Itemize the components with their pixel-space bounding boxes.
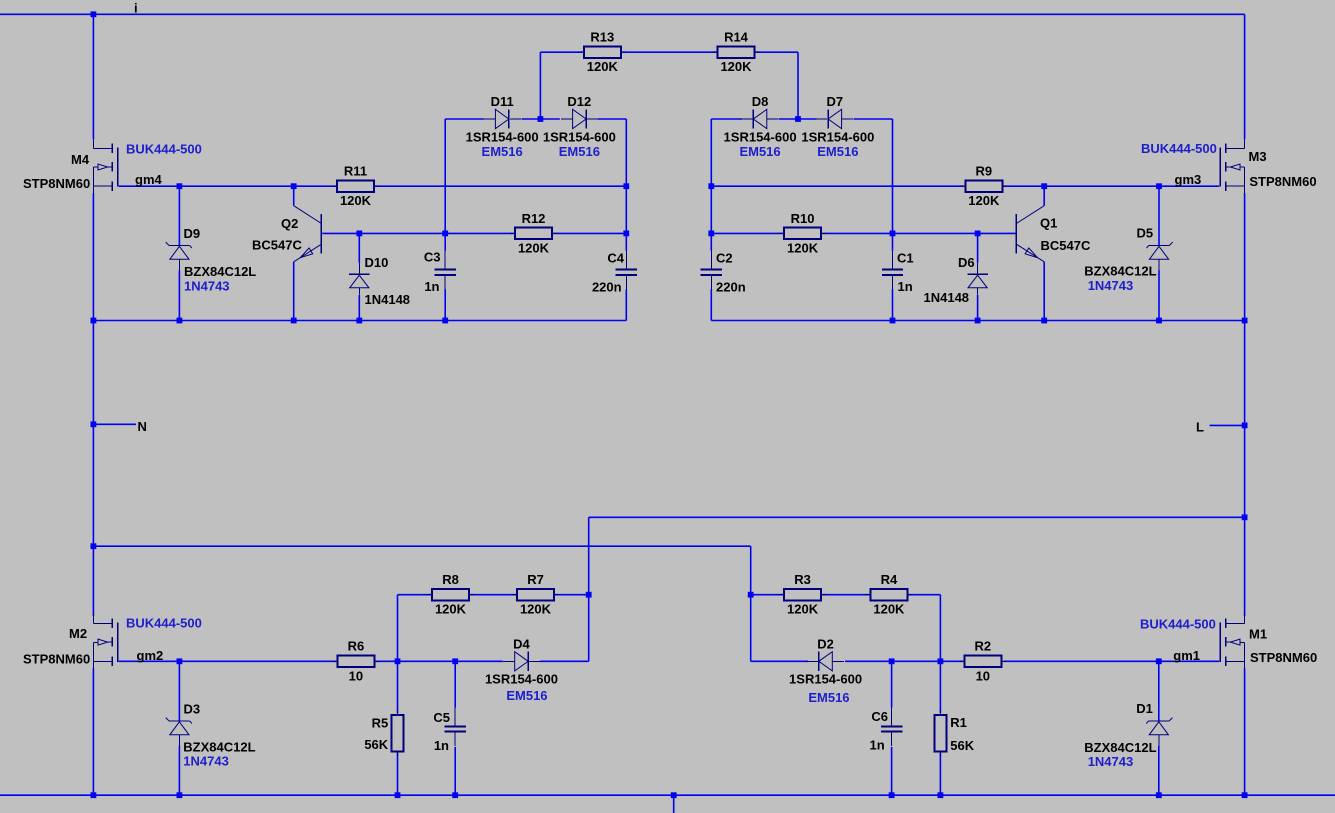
- wire R8-R7 rail: [398, 594, 432, 596]
- svg-text:1SR154-600: 1SR154-600: [466, 130, 539, 145]
- junction bottom rail / D3: [177, 792, 183, 798]
- wire base rail left: [322, 232, 514, 234]
- wire: [293, 262, 295, 321]
- resistor R14: [712, 46, 759, 58]
- resistor R12: [510, 228, 557, 240]
- svg-text:120K: 120K: [587, 59, 619, 74]
- MOSFET M2: [93, 614, 117, 668]
- svg-text:C2: C2: [716, 251, 733, 266]
- resistor R3: [779, 589, 826, 601]
- junction gm4 / D9: [177, 183, 183, 189]
- wire: [540, 660, 589, 662]
- junction bottom rail / C6: [889, 792, 895, 798]
- svg-text:D10: D10: [365, 255, 389, 270]
- svg-text:1n: 1n: [424, 279, 439, 294]
- svg-text:BUK444-500: BUK444-500: [126, 616, 202, 631]
- junction rail L / M3 source: [1242, 318, 1248, 324]
- wire: [892, 119, 894, 251]
- junction gm1 rail / D1: [1156, 658, 1162, 664]
- wire: [454, 661, 456, 707]
- junction base rail / D6: [975, 231, 981, 237]
- wire: [178, 270, 180, 320]
- wire gm4 rail: [119, 185, 336, 187]
- resistor R8: [427, 589, 474, 601]
- wire ground stub: [673, 795, 675, 813]
- resistor R11: [332, 180, 379, 192]
- wire: [625, 289, 627, 320]
- svg-text:56K: 56K: [364, 737, 388, 752]
- junction rail N / C3: [442, 318, 448, 324]
- svg-text:C5: C5: [433, 710, 450, 725]
- svg-text:L: L: [1196, 420, 1204, 435]
- wire: [854, 118, 893, 120]
- junction rail L / D5: [1156, 318, 1162, 324]
- svg-text:EM516: EM516: [739, 144, 780, 159]
- svg-text:R8: R8: [442, 572, 459, 587]
- wire: [178, 661, 180, 720]
- resistor R1: [934, 711, 946, 757]
- junction gm2 / D3: [177, 658, 183, 664]
- svg-text:gm1: gm1: [1173, 648, 1200, 663]
- junction bottom rail / C5: [452, 792, 458, 798]
- wire: [1003, 660, 1219, 662]
- wire: [92, 668, 94, 795]
- svg-text:D1: D1: [1136, 701, 1153, 716]
- wire: [397, 595, 399, 662]
- wire mid rail to L column: [589, 516, 1245, 518]
- junction rail L / D6: [975, 318, 981, 324]
- svg-text:56K: 56K: [950, 738, 974, 753]
- transistor Q2: [294, 206, 322, 262]
- svg-text:M2: M2: [69, 626, 87, 641]
- wire: [444, 289, 446, 320]
- svg-text:BC547C: BC547C: [252, 238, 302, 253]
- svg-text:1N4148: 1N4148: [924, 290, 970, 305]
- junction bottom rail / D1: [1156, 792, 1162, 798]
- svg-text:120K: 120K: [787, 602, 819, 617]
- svg-text:STP8NM60: STP8NM60: [1249, 174, 1316, 189]
- node N: [91, 421, 97, 427]
- wire gm2 rail: [119, 660, 337, 662]
- svg-text:EM516: EM516: [817, 144, 858, 159]
- svg-text:1n: 1n: [870, 738, 885, 753]
- wire: [891, 747, 893, 795]
- diode D11: [484, 109, 522, 128]
- wire R13-R14 rail: [540, 51, 582, 53]
- svg-text:BZX84C12L: BZX84C12L: [1084, 740, 1156, 755]
- junction rail L / C1: [890, 318, 896, 324]
- wire: [750, 546, 752, 661]
- svg-text:1SR154-600: 1SR154-600: [543, 130, 616, 145]
- svg-text:220n: 220n: [592, 280, 622, 295]
- junction N column / mid rail: [91, 543, 97, 549]
- svg-text:1N4743: 1N4743: [1088, 754, 1134, 769]
- wire: [553, 232, 626, 234]
- diode D7: [815, 109, 853, 128]
- wire: [710, 289, 712, 320]
- wire: [1158, 270, 1160, 320]
- wire: [939, 752, 941, 795]
- svg-text:R3: R3: [794, 572, 811, 587]
- svg-text:N: N: [138, 419, 147, 434]
- capacitor C1: [882, 251, 903, 290]
- svg-text:D12: D12: [567, 94, 591, 109]
- junction rail L / Q1 emitter: [1041, 318, 1047, 324]
- svg-text:10: 10: [976, 668, 990, 683]
- svg-text:D3: D3: [184, 702, 201, 717]
- wire: [293, 186, 295, 206]
- zener diode D5: [1147, 242, 1173, 270]
- junction R3 / riser: [748, 592, 754, 598]
- junction gm1 rail / C6: [889, 658, 895, 664]
- capacitor C6: [881, 708, 902, 747]
- junction D11-D12 / R13: [538, 116, 544, 122]
- wire: [588, 517, 590, 661]
- junction gm3 / Q1 collector: [1041, 183, 1047, 189]
- junction gm4 / Q2 collector: [291, 183, 297, 189]
- svg-text:BZX84C12L: BZX84C12L: [1084, 264, 1156, 279]
- wire: [1158, 746, 1160, 795]
- junction bottom rail / R5: [395, 792, 401, 798]
- junction D8-D7 / R14: [795, 116, 801, 122]
- svg-text:R1: R1: [950, 715, 967, 730]
- wire top rail (net i): [0, 13, 1245, 15]
- junction base rail / D10: [356, 231, 362, 237]
- svg-text:BC547C: BC547C: [1041, 238, 1091, 253]
- svg-text:BUK444-500: BUK444-500: [126, 141, 202, 156]
- svg-text:120K: 120K: [518, 240, 550, 255]
- resistor R7: [512, 589, 559, 601]
- diode D6: [967, 263, 988, 295]
- svg-text:1SR154-600: 1SR154-600: [789, 672, 862, 687]
- junction bottom rail / ground stub: [671, 792, 677, 798]
- junction top rail / M4 drain: [91, 11, 97, 17]
- junction rail N / Q2 emitter: [291, 318, 297, 324]
- svg-text:R4: R4: [881, 572, 898, 587]
- wire: [454, 747, 456, 795]
- wire D8-D7 rail: [711, 118, 742, 120]
- wire: [625, 119, 627, 251]
- wire: [539, 52, 541, 119]
- svg-text:EM516: EM516: [506, 688, 547, 703]
- junction gm2 / R5: [395, 658, 401, 664]
- junction gm1 rail / R1: [938, 658, 944, 664]
- svg-text:D11: D11: [491, 94, 514, 109]
- svg-text:220n: 220n: [716, 280, 746, 295]
- junction R7 / riser: [586, 592, 592, 598]
- zener diode D9: [166, 242, 192, 270]
- svg-text:BZX84C12L: BZX84C12L: [184, 264, 256, 279]
- zener diode D3: [166, 718, 192, 746]
- wire: [892, 289, 894, 320]
- wire: [1244, 668, 1246, 795]
- svg-text:BUK444-500: BUK444-500: [1140, 617, 1216, 632]
- wire: [358, 295, 360, 321]
- capacitor C5: [445, 708, 466, 747]
- junction rail N / D10: [356, 318, 362, 324]
- svg-text:BUK444-500: BUK444-500: [1141, 141, 1217, 156]
- svg-text:R10: R10: [791, 211, 815, 226]
- wire bottom rail left (net N side): [93, 320, 626, 322]
- wire: [522, 118, 560, 120]
- svg-text:1SR154-600: 1SR154-600: [485, 672, 558, 687]
- capacitor C4: [616, 251, 637, 290]
- wire mid rail to N column: [93, 545, 750, 547]
- svg-text:R7: R7: [527, 572, 544, 587]
- resistor R4: [865, 589, 912, 601]
- wire base rail right: [711, 232, 783, 234]
- junction rail N / D9: [177, 318, 183, 324]
- svg-text:1N4743: 1N4743: [184, 279, 230, 294]
- wire net L stub: [1210, 424, 1245, 426]
- svg-text:C4: C4: [607, 251, 624, 266]
- MOSFET M4: [93, 139, 117, 193]
- wire: [1158, 661, 1160, 720]
- svg-text:D6: D6: [958, 255, 975, 270]
- wire R3-R4 rail: [751, 594, 783, 596]
- wire net N stub: [93, 423, 136, 425]
- svg-text:gm3: gm3: [1175, 172, 1202, 187]
- MOSFET M3: [1220, 139, 1244, 193]
- wire: [822, 232, 1016, 234]
- junction base rail / C3: [442, 231, 448, 237]
- svg-text:EM516: EM516: [559, 144, 600, 159]
- svg-text:C3: C3: [424, 250, 441, 265]
- wire: [444, 119, 446, 251]
- wire: [908, 594, 940, 596]
- wire: [470, 594, 516, 596]
- svg-text:120K: 120K: [787, 240, 819, 255]
- svg-text:R13: R13: [590, 30, 614, 45]
- zener diode D1: [1146, 718, 1172, 746]
- svg-text:120K: 120K: [720, 59, 752, 74]
- resistor R13: [579, 46, 626, 58]
- svg-text:Q1: Q1: [1040, 216, 1057, 231]
- svg-text:EM516: EM516: [482, 144, 523, 159]
- svg-text:D2: D2: [817, 636, 834, 651]
- diode D4: [503, 652, 541, 671]
- wire: [756, 51, 799, 53]
- capacitor C3: [435, 251, 456, 290]
- wire: [358, 233, 360, 263]
- wire: [598, 118, 626, 120]
- wire: [375, 660, 502, 662]
- wire: [1158, 186, 1160, 245]
- junction R12 / C4: [623, 231, 629, 237]
- wire: [845, 660, 963, 662]
- wire: [178, 186, 180, 245]
- svg-text:D5: D5: [1137, 226, 1154, 241]
- capacitor C2: [701, 251, 722, 290]
- transistor Q1: [1016, 206, 1044, 262]
- svg-text:M4: M4: [71, 152, 90, 167]
- wire: [939, 595, 941, 662]
- svg-text:EM516: EM516: [808, 690, 849, 705]
- svg-text:1N4743: 1N4743: [1088, 278, 1134, 293]
- svg-text:M3: M3: [1249, 149, 1267, 164]
- svg-text:BZX84C12L: BZX84C12L: [183, 740, 255, 755]
- svg-text:1n: 1n: [898, 279, 913, 294]
- svg-text:STP8NM60: STP8NM60: [23, 651, 90, 666]
- wire: [1043, 186, 1045, 206]
- svg-text:R12: R12: [522, 211, 546, 226]
- svg-text:C1: C1: [897, 251, 914, 266]
- svg-text:D8: D8: [752, 94, 769, 109]
- junction gm3 / D5: [1156, 183, 1162, 189]
- wire D2 rail: [751, 660, 808, 662]
- svg-text:10: 10: [349, 668, 363, 683]
- svg-text:C6: C6: [871, 709, 888, 724]
- svg-text:STP8NM60: STP8NM60: [23, 176, 90, 191]
- wire: [797, 52, 799, 119]
- wire: [1244, 14, 1246, 139]
- wire: [622, 51, 717, 53]
- svg-text:R5: R5: [372, 715, 389, 730]
- svg-text:R2: R2: [974, 639, 991, 654]
- junction bottom rail / R1: [938, 792, 944, 798]
- svg-text:D4: D4: [513, 636, 530, 651]
- svg-text:STP8NM60: STP8NM60: [1250, 650, 1317, 665]
- wire: [375, 185, 626, 187]
- svg-text:120K: 120K: [968, 193, 1000, 208]
- resistor R10: [779, 228, 826, 240]
- svg-text:1N4148: 1N4148: [365, 292, 411, 307]
- wire: [397, 661, 399, 713]
- svg-text:M1: M1: [1249, 626, 1267, 641]
- resistor R6: [332, 656, 379, 668]
- svg-text:i: i: [134, 1, 138, 16]
- wire: [1244, 193, 1246, 616]
- diode D8: [741, 109, 779, 128]
- wire: [1003, 185, 1219, 187]
- junction L column / mid rail: [1242, 514, 1248, 520]
- svg-text:gm2: gm2: [137, 648, 164, 663]
- junction bottom rail / M2 source: [91, 792, 97, 798]
- wire: [891, 661, 893, 707]
- junction bottom rail / M1 source: [1242, 792, 1248, 798]
- svg-text:1SR154-600: 1SR154-600: [724, 130, 797, 145]
- wire: [397, 752, 399, 795]
- wire bottom rail right (net L side): [711, 320, 1244, 322]
- junction R10 / C1: [890, 231, 896, 237]
- wire bottom rail (source bus): [0, 794, 1335, 796]
- resistor R9: [960, 180, 1007, 192]
- svg-text:D9: D9: [184, 226, 201, 241]
- svg-text:120K: 120K: [340, 193, 372, 208]
- svg-text:Q2: Q2: [281, 216, 298, 231]
- junction gm4 / C4 column: [623, 183, 629, 189]
- svg-text:D7: D7: [827, 94, 844, 109]
- node L: [1242, 423, 1248, 429]
- wire: [1043, 262, 1045, 321]
- svg-text:R6: R6: [348, 639, 365, 654]
- wire: [178, 746, 180, 795]
- wire gm3 rail: [711, 185, 964, 187]
- svg-text:120K: 120K: [520, 602, 552, 617]
- diode D2: [806, 652, 844, 671]
- diode D12: [561, 109, 599, 128]
- svg-text:gm4: gm4: [135, 172, 163, 187]
- wire: [92, 14, 94, 139]
- svg-text:R14: R14: [724, 30, 749, 45]
- svg-text:1n: 1n: [434, 738, 449, 753]
- svg-text:R9: R9: [975, 164, 992, 179]
- svg-text:120K: 120K: [873, 602, 905, 617]
- wire: [779, 118, 817, 120]
- wire: [710, 119, 712, 251]
- junction gm2 / C5: [452, 658, 458, 664]
- wire: [939, 661, 941, 713]
- wire: [977, 233, 979, 263]
- diode D10: [349, 263, 370, 295]
- junction R10 / C2: [708, 231, 714, 237]
- wire D11-D12 rail: [445, 118, 483, 120]
- wire: [555, 594, 589, 596]
- svg-text:1SR154-600: 1SR154-600: [801, 130, 874, 145]
- wire: [977, 295, 979, 321]
- resistor R5: [392, 711, 404, 757]
- svg-text:120K: 120K: [435, 602, 467, 617]
- svg-text:R11: R11: [344, 164, 367, 179]
- junction gm3 / C2 column: [708, 183, 714, 189]
- resistor R2: [959, 656, 1006, 668]
- wire: [92, 193, 94, 616]
- junction rail N / M4 source: [91, 318, 97, 324]
- svg-text:1N4743: 1N4743: [183, 754, 229, 769]
- MOSFET M1: [1220, 614, 1244, 668]
- wire: [822, 594, 869, 596]
